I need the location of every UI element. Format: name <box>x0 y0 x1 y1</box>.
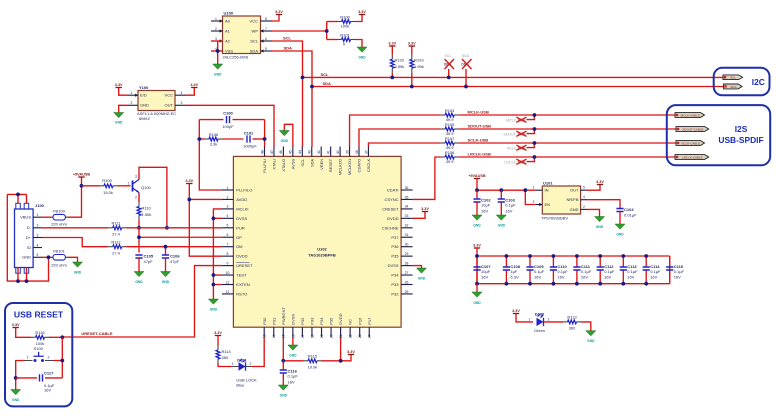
svg-text:S100: S100 <box>34 346 44 351</box>
svg-text:16V: 16V <box>674 275 681 280</box>
wire +5V rail to U101 IN <box>477 179 536 205</box>
svg-text:IN: IN <box>545 188 549 193</box>
svg-text:GND: GND <box>616 233 624 237</box>
LED D100 Green <box>529 312 550 333</box>
wire U101 OUT to 3.3V <box>587 185 601 191</box>
svg-text:+5VAUSB: +5VAUSB <box>468 174 486 178</box>
wire J100 shield loop <box>7 194 48 281</box>
svg-text:DVSS: DVSS <box>388 263 399 268</box>
svg-text:3.3V: 3.3V <box>408 41 416 45</box>
svg-text:30: 30 <box>405 243 409 247</box>
USB RESET block outline <box>5 303 72 406</box>
svg-text:0.1µF: 0.1µF <box>505 203 516 208</box>
svg-text:EN: EN <box>545 202 551 207</box>
svg-text:3: 3 <box>181 101 183 105</box>
wire U100 VCC to 3.3V <box>272 15 279 22</box>
svg-text:8: 8 <box>265 17 267 21</box>
svg-text:VSS: VSS <box>225 48 233 53</box>
svg-text:GND: GND <box>140 103 149 108</box>
DNF component SDOUT (not fitted) <box>503 129 534 137</box>
svg-text:SDA: SDA <box>309 158 314 167</box>
svg-text:1: 1 <box>131 91 133 95</box>
svg-text:GND: GND <box>358 56 366 60</box>
wire decoupling rail top <box>477 248 670 284</box>
svg-text:1: 1 <box>215 17 217 21</box>
wire FB101 to ground <box>68 257 78 262</box>
svg-text:16V: 16V <box>44 387 51 392</box>
wire MCLK from Y100 OUT to XTALI <box>186 105 274 146</box>
svg-text:GND: GND <box>473 301 481 305</box>
svg-text:GND: GND <box>210 308 218 312</box>
svg-text:C105: C105 <box>144 254 154 259</box>
svg-text:P33: P33 <box>310 317 315 325</box>
switch S100 <box>25 346 54 362</box>
svg-text:DVSS: DVSS <box>236 216 247 221</box>
svg-text:4: 4 <box>181 91 183 95</box>
svg-text:GND: GND <box>570 207 579 212</box>
capacitor C115 0.1uF <box>666 256 684 284</box>
svg-text:14: 14 <box>272 334 276 338</box>
capacitor C101 1000pF <box>243 131 264 149</box>
svg-text:GND: GND <box>587 339 595 343</box>
capacitor C102 10uF <box>473 190 491 215</box>
svg-text:16V: 16V <box>481 209 488 214</box>
ferrite bead FB101 220 ohm <box>42 248 68 267</box>
ground pin28 <box>417 268 427 273</box>
svg-text:+5VAUSB: +5VAUSB <box>73 172 91 176</box>
svg-text:3: 3 <box>135 175 137 179</box>
svg-text:1: 1 <box>27 356 29 360</box>
svg-text:6MHZ: 6MHZ <box>139 116 150 121</box>
wire U101 GND pin <box>587 209 600 216</box>
ground C102 <box>472 215 482 220</box>
svg-text:A2: A2 <box>225 38 231 43</box>
svg-text:GND: GND <box>418 277 426 281</box>
svg-text:6.3V: 6.3V <box>510 275 519 280</box>
svg-text:GND: GND <box>498 224 506 228</box>
svg-text:DP: DP <box>236 235 242 240</box>
capacitor C110 0.1uF <box>550 256 568 284</box>
svg-text:7: 7 <box>265 27 267 31</box>
svg-text:23: 23 <box>358 334 362 338</box>
svg-text:2: 2 <box>131 101 133 105</box>
svg-text:27: 27 <box>405 271 409 275</box>
svg-text:VCC: VCC <box>250 18 259 23</box>
svg-text:6: 6 <box>265 37 267 41</box>
svg-text:3: 3 <box>215 37 217 41</box>
wire 3.3V to AVDD and DVDD <box>189 184 222 257</box>
svg-text:2: 2 <box>227 195 229 199</box>
capacitor C114 0.1uF <box>643 256 661 284</box>
op-amp U102 TAS1020BPFB main IC <box>222 147 413 339</box>
svg-text:P30: P30 <box>262 317 267 325</box>
svg-text:R107: R107 <box>445 136 455 141</box>
svg-text:10.0k: 10.0k <box>308 364 318 369</box>
capacitor C116 0.1uF <box>280 361 299 385</box>
resistor R115 10.0k <box>304 354 341 370</box>
svg-text:3: 3 <box>37 233 39 237</box>
svg-text:CDATO: CDATO <box>357 159 362 173</box>
wire net SDA <box>272 51 724 147</box>
capacitor C106 47pF <box>162 247 180 272</box>
svg-text:J100: J100 <box>35 203 45 208</box>
wire U100 WP to R100/R101 <box>272 22 327 40</box>
I2S USB-SPDIF block outline <box>667 105 770 165</box>
svg-text:P17: P17 <box>367 317 372 325</box>
svg-text:PUR: PUR <box>236 225 245 230</box>
wire Y100 E/D to 3.3V <box>119 88 127 96</box>
svg-text:D+: D+ <box>26 235 32 240</box>
svg-text:0.1µF: 0.1µF <box>674 269 685 274</box>
svg-text:R112: R112 <box>111 240 121 245</box>
svg-text:39: 39 <box>345 150 349 154</box>
svg-text:GND: GND <box>289 354 297 358</box>
svg-text:R111: R111 <box>112 221 122 226</box>
svg-text:11: 11 <box>226 280 230 284</box>
svg-text:220 ohm: 220 ohm <box>51 221 67 226</box>
resistor R103 4.99k pullup SDA <box>410 46 424 87</box>
resistor R110 1.50k <box>137 193 151 228</box>
svg-text:TPS76933DBV: TPS76933DBV <box>541 216 568 221</box>
svg-text:2: 2 <box>250 362 252 366</box>
svg-text:U101: U101 <box>543 181 553 186</box>
svg-text:100pF: 100pF <box>222 124 234 129</box>
wire D101 to P30 pin <box>251 337 264 367</box>
svg-text:VREN: VREN <box>319 159 324 170</box>
resistor R101 0 <box>327 32 362 47</box>
svg-text:3.3V: 3.3V <box>115 83 123 87</box>
svg-text:AVSS: AVSS <box>290 158 295 169</box>
svg-text:1.50k: 1.50k <box>142 212 152 217</box>
resistor R113 360 <box>544 315 591 331</box>
svg-text:CDATI: CDATI <box>387 188 399 193</box>
wire U101 NR/FB to C104 <box>587 200 621 209</box>
svg-text:8: 8 <box>227 252 229 256</box>
svg-text:10µF: 10µF <box>481 269 491 274</box>
wire PLL filter right leg to PLLFILI <box>264 120 266 147</box>
svg-text:USB-SPDIF: USB-SPDIF <box>718 135 763 145</box>
svg-text:31: 31 <box>405 233 409 237</box>
svg-text:42: 42 <box>317 150 321 154</box>
wire net MCLK-USB <box>350 115 441 147</box>
svg-text:25: 25 <box>405 290 409 294</box>
svg-text:49.9: 49.9 <box>446 159 455 164</box>
svg-text:10µF: 10µF <box>481 203 491 208</box>
ground MCLKI net <box>208 299 218 304</box>
svg-text:SCL: SCL <box>283 36 292 41</box>
svg-text:16V: 16V <box>481 275 488 280</box>
svg-text:48: 48 <box>260 150 264 154</box>
svg-text:P36: P36 <box>391 244 399 249</box>
svg-text:D-: D- <box>27 225 32 230</box>
svg-text:MCLK-CABLE: MCLK-CABLE <box>681 113 700 117</box>
svg-text:5: 5 <box>583 186 585 190</box>
svg-text:MCLKO2: MCLKO2 <box>338 158 343 175</box>
ground USB RESET <box>11 390 21 395</box>
connector tag SCLK-CABLE <box>676 141 705 146</box>
svg-text:0.1µF: 0.1µF <box>557 269 568 274</box>
svg-text:VCC: VCC <box>165 93 174 98</box>
ground AVSS <box>279 131 289 136</box>
ground C105 <box>134 272 144 277</box>
capacitor C108 1uF <box>503 256 521 284</box>
svg-text:32: 32 <box>405 224 409 228</box>
svg-text:I2C: I2C <box>752 77 765 87</box>
svg-text:1µF: 1µF <box>510 269 518 274</box>
svg-text:Y100: Y100 <box>139 85 149 90</box>
capacitor C117 0.1uF <box>16 370 63 392</box>
svg-text:LRCLK-CABLE: LRCLK-CABLE <box>682 155 703 159</box>
svg-text:SDOUT-CABLE: SDOUT-CABLE <box>682 127 703 131</box>
svg-text:Blue: Blue <box>236 382 245 387</box>
wire 3.3V to D100 <box>516 314 533 322</box>
svg-text:GND: GND <box>596 225 604 229</box>
svg-text:46: 46 <box>279 150 283 154</box>
svg-text:SDA: SDA <box>730 85 736 89</box>
svg-text:USB RESET: USB RESET <box>14 310 64 320</box>
svg-text:TEST: TEST <box>236 273 247 278</box>
svg-text:1: 1 <box>232 362 234 366</box>
svg-text:SDA: SDA <box>462 54 470 58</box>
svg-text:19: 19 <box>320 334 324 338</box>
svg-text:3.3V: 3.3V <box>512 309 520 313</box>
wire Y100 VCC to 3.3V <box>186 88 194 96</box>
svg-text:45: 45 <box>289 150 293 154</box>
connector tag SCL <box>723 75 743 80</box>
svg-text:29: 29 <box>405 252 409 256</box>
svg-text:4: 4 <box>37 243 39 247</box>
svg-text:U102: U102 <box>317 247 327 252</box>
svg-text:16V: 16V <box>604 275 611 280</box>
svg-text:C100: C100 <box>223 111 233 116</box>
ground pin16 <box>288 345 298 350</box>
resistor R102 4.99k pullup SCL <box>390 46 404 77</box>
svg-text:U100: U100 <box>224 11 234 16</box>
wire U100 A2/VSS to ground <box>211 41 223 64</box>
svg-text:LRCLK: LRCLK <box>504 161 516 165</box>
svg-text:44: 44 <box>298 150 302 154</box>
ground C106 <box>161 272 171 277</box>
capacitor C100 100pF <box>199 111 264 130</box>
svg-text:SDA: SDA <box>284 46 293 51</box>
svg-text:40: 40 <box>336 150 340 154</box>
wire VBUS riser to +5VAUSB <box>68 177 82 217</box>
wire node to switch and C117 <box>16 337 63 389</box>
svg-text:MCLK: MCLK <box>506 119 517 123</box>
capacitor C105 47pF <box>135 254 153 272</box>
LED D101 USB LOCK Blue <box>232 358 257 388</box>
svg-text:16V: 16V <box>288 380 295 385</box>
wire net SCLK-USB <box>368 143 440 147</box>
svg-text:16V: 16V <box>505 209 512 214</box>
svg-text:AVDD: AVDD <box>236 197 247 202</box>
svg-text:3.3V: 3.3V <box>275 10 283 14</box>
svg-text:R113: R113 <box>567 315 577 320</box>
wire Q100 collector to PUR net <box>139 167 167 228</box>
svg-text:47: 47 <box>270 150 274 154</box>
wire MCLKI/DVSS/TEST/EXTEN ground net <box>213 209 222 299</box>
svg-text:0.1µF: 0.1µF <box>627 269 638 274</box>
svg-text:36: 36 <box>405 186 409 190</box>
svg-text:P34: P34 <box>391 273 399 278</box>
svg-text:9: 9 <box>227 261 229 265</box>
svg-text:43: 43 <box>308 150 312 154</box>
svg-text:1000pF: 1000pF <box>243 144 257 149</box>
svg-text:FB101: FB101 <box>53 248 66 253</box>
connector J100 USB <box>15 203 45 273</box>
svg-text:0.01µF: 0.01µF <box>624 213 637 218</box>
svg-text:R109: R109 <box>102 178 112 183</box>
svg-text:27.4: 27.4 <box>112 231 121 236</box>
svg-text:4.99k: 4.99k <box>414 64 424 69</box>
resistor R116 100k <box>31 330 62 346</box>
svg-text:GND: GND <box>280 394 288 398</box>
svg-text:22: 22 <box>349 334 353 338</box>
svg-text:GND: GND <box>281 139 289 143</box>
svg-text:47pF: 47pF <box>170 259 180 264</box>
svg-text:PLLFILI: PLLFILI <box>262 159 267 173</box>
svg-text:R116: R116 <box>35 330 45 335</box>
svg-text:A0: A0 <box>225 18 231 23</box>
svg-text:CSYNC: CSYNC <box>384 197 398 202</box>
svg-text:360: 360 <box>222 355 229 360</box>
svg-text:3.3V: 3.3V <box>214 331 222 335</box>
svg-text:34: 34 <box>405 205 409 209</box>
resistor R109 15.0k <box>82 178 131 195</box>
wire DVDD pin21 to 3.3V <box>341 337 351 361</box>
oscillator Y100 6MHz <box>127 85 186 121</box>
svg-text:47pF: 47pF <box>144 259 154 264</box>
svg-text:15.0k: 15.0k <box>103 190 113 195</box>
svg-text:MCLK-USB: MCLK-USB <box>468 109 489 114</box>
wire PLL filter left leg to PLLFILO <box>199 120 222 190</box>
svg-text:P33: P33 <box>391 282 399 287</box>
svg-text:E/D: E/D <box>140 93 147 98</box>
ferrite bead FB100 220 ohm <box>42 208 68 226</box>
capacitor C103 0.1uF <box>498 190 516 215</box>
wire 3.3V to R116 <box>16 328 31 338</box>
svg-text:RESET: RESET <box>328 158 333 172</box>
svg-text:2: 2 <box>48 356 50 360</box>
svg-text:100k: 100k <box>341 23 350 28</box>
svg-text:GND: GND <box>12 398 20 402</box>
resistor R106 3.3k <box>199 132 243 147</box>
svg-text:6: 6 <box>227 233 229 237</box>
op-amp U101 TPS76933DBV regulator <box>533 181 587 221</box>
svg-text:P31: P31 <box>271 317 276 325</box>
svg-text:GND: GND <box>214 73 222 77</box>
svg-text:33: 33 <box>405 214 409 218</box>
svg-text:WP: WP <box>252 28 259 33</box>
svg-text:37: 37 <box>364 150 368 154</box>
svg-text:1: 1 <box>533 186 535 190</box>
svg-text:CRESET: CRESET <box>382 206 399 211</box>
svg-text:2: 2 <box>583 205 585 209</box>
svg-text:5: 5 <box>265 47 267 51</box>
svg-text:GND: GND <box>135 280 143 284</box>
svg-text:R102: R102 <box>395 58 405 63</box>
svg-text:16V: 16V <box>557 275 564 280</box>
I2C block outline <box>714 68 770 96</box>
svg-text:P34: P34 <box>319 317 324 325</box>
svg-text:0.1µF: 0.1µF <box>288 374 299 379</box>
resistor R114 360 <box>216 336 231 367</box>
svg-text:DVDD: DVDD <box>236 254 247 259</box>
svg-text:SDA: SDA <box>323 81 332 86</box>
svg-text:7: 7 <box>227 243 229 247</box>
wire net SCL <box>272 41 723 147</box>
connector tag MCLK-CABLE <box>675 113 705 118</box>
svg-text:0.1µF: 0.1µF <box>534 269 545 274</box>
connector tag SDOUT-CABLE <box>676 127 709 132</box>
svg-text:MCLKI: MCLKI <box>236 206 248 211</box>
wire DVSS pin16 to ground <box>292 337 294 345</box>
svg-text:SCL: SCL <box>250 38 259 43</box>
svg-text:CSCHNE: CSCHNE <box>382 225 399 230</box>
IC U100 24LC256 EEPROM <box>211 11 272 60</box>
svg-text:SDOUT: SDOUT <box>503 133 516 137</box>
capacitor C104 0.01uF <box>616 207 637 224</box>
svg-text:R106: R106 <box>209 132 219 137</box>
svg-text:38: 38 <box>355 150 359 154</box>
svg-text:3.3k: 3.3k <box>210 142 218 147</box>
svg-text:R101: R101 <box>340 32 350 37</box>
svg-text:R105: R105 <box>445 122 455 127</box>
svg-text:C104: C104 <box>624 207 634 212</box>
svg-text:16V: 16V <box>627 275 634 280</box>
capacitor C109 0.1uF <box>526 256 544 284</box>
svg-text:3.3V: 3.3V <box>347 350 355 354</box>
svg-text:GND: GND <box>22 255 31 260</box>
svg-text:0.1µF: 0.1µF <box>604 269 615 274</box>
resistor R104 49.9 <box>441 108 675 122</box>
svg-text:1: 1 <box>37 213 39 217</box>
svg-text:16V: 16V <box>534 275 541 280</box>
svg-text:MCLKO1: MCLKO1 <box>347 158 352 175</box>
svg-text:4.99k: 4.99k <box>395 64 405 69</box>
wire DVSS pin28 to ground <box>413 266 422 268</box>
svg-text:SCL: SCL <box>730 76 736 80</box>
svg-text:3.3V: 3.3V <box>190 83 198 87</box>
svg-text:P32: P32 <box>391 291 399 296</box>
svg-text:P16: P16 <box>357 317 362 325</box>
ground Y100 <box>114 113 124 118</box>
svg-text:3.3V: 3.3V <box>421 207 429 211</box>
svg-text:10: 10 <box>226 271 230 275</box>
svg-text:SCLK-USB: SCLK-USB <box>468 137 489 142</box>
svg-text:R110: R110 <box>142 206 152 211</box>
wire net SDOUT-USB <box>359 129 441 147</box>
svg-text:2: 2 <box>548 317 550 321</box>
svg-text:C117: C117 <box>44 370 54 375</box>
svg-text:DVSS: DVSS <box>290 314 295 325</box>
ground C116 <box>278 385 288 390</box>
svg-text:2: 2 <box>37 224 39 228</box>
svg-text:PWRGNT: PWRGNT <box>281 306 286 324</box>
svg-text:XTALI: XTALI <box>272 159 277 170</box>
wire AVSS to ground (top) <box>284 124 293 146</box>
svg-text:16V: 16V <box>581 275 588 280</box>
svg-text:GND: GND <box>473 224 481 228</box>
svg-text:FB100: FB100 <box>53 208 66 213</box>
svg-text:SCLK: SCLK <box>507 147 517 151</box>
svg-text:GND: GND <box>115 121 123 125</box>
resistor R108 49.9 <box>441 150 675 164</box>
ground U100 <box>213 64 223 69</box>
svg-text:12: 12 <box>226 290 230 294</box>
svg-text:17: 17 <box>301 334 305 338</box>
svg-text:ID: ID <box>27 245 31 250</box>
